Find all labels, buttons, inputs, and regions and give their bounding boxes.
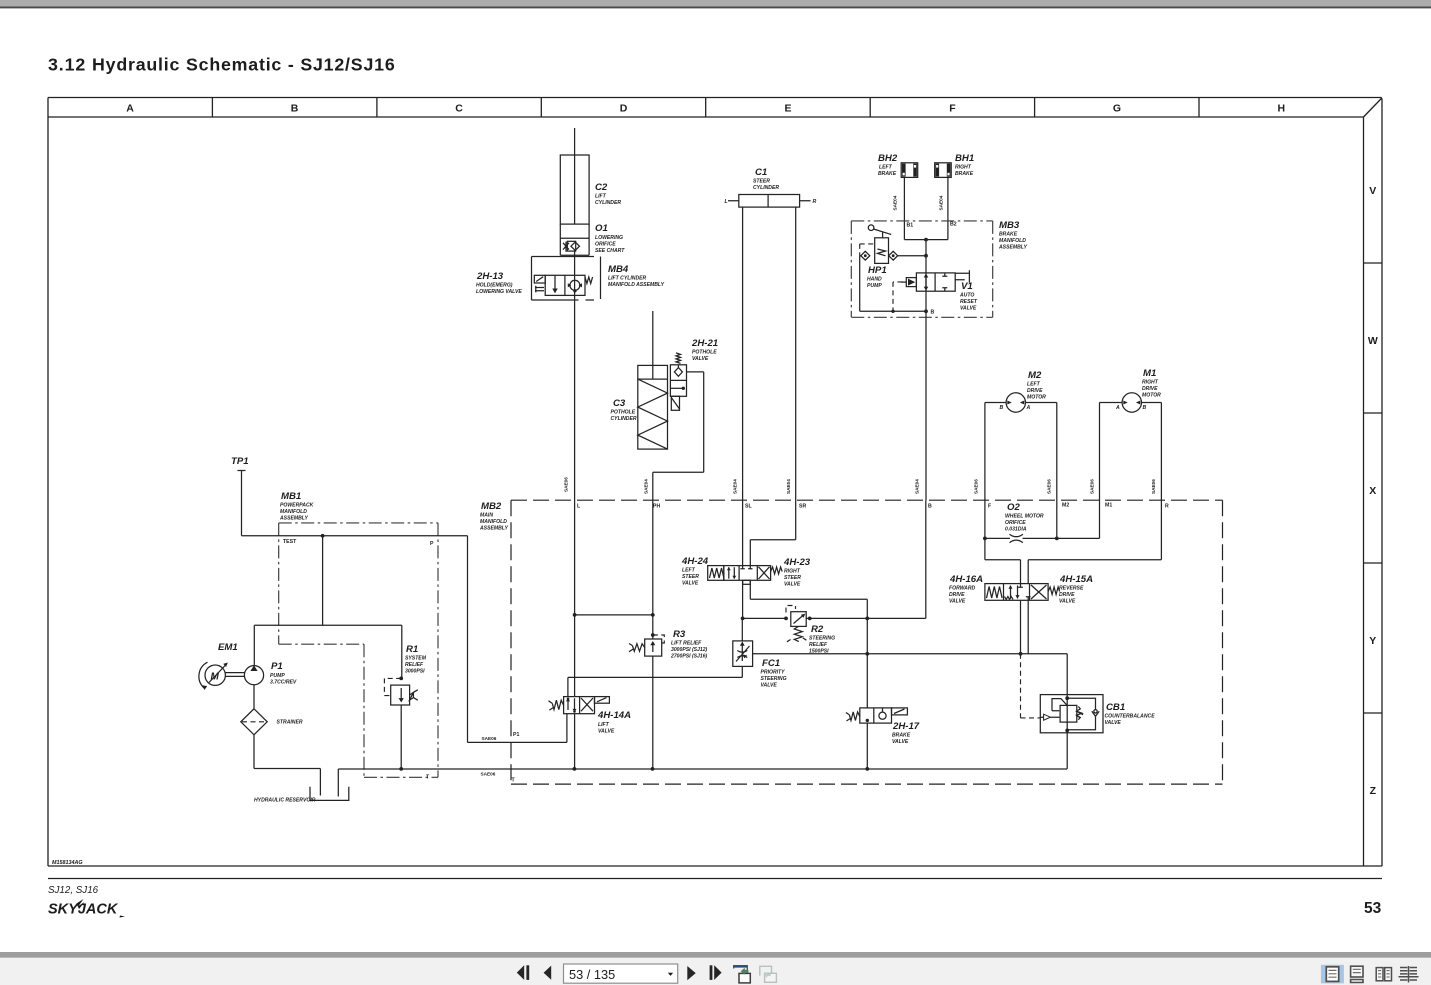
svg-text:STEERING: STEERING xyxy=(809,636,835,642)
wire brake feed B xyxy=(915,240,935,501)
svg-text:CYLINDER: CYLINDER xyxy=(611,416,637,422)
svg-text:BH2: BH2 xyxy=(878,153,898,164)
svg-text:FORWARD: FORWARD xyxy=(949,586,976,592)
svg-text:VALVE: VALVE xyxy=(1059,599,1076,605)
svg-text:CYLINDER: CYLINDER xyxy=(595,200,621,206)
left brake BH2 xyxy=(878,153,918,177)
svg-text:ASSEMBLY: ASSEMBLY xyxy=(479,526,509,532)
forward-history icon (disabled) xyxy=(760,966,777,982)
svg-text:SAE04: SAE04 xyxy=(644,479,649,494)
svg-text:V1: V1 xyxy=(961,281,973,292)
auto reset valve V1 xyxy=(893,270,978,311)
page number combo box xyxy=(564,964,678,983)
right drive motor M1 xyxy=(1100,368,1162,412)
svg-text:3000PSI (SJ12): 3000PSI (SJ12) xyxy=(671,647,708,653)
svg-text:VALVE: VALVE xyxy=(949,599,966,605)
svg-text:CYLINDER: CYLINDER xyxy=(753,185,779,191)
svg-text:STEER: STEER xyxy=(753,179,770,185)
electric motor EM1 xyxy=(199,642,238,690)
svg-text:MANIFOLD: MANIFOLD xyxy=(280,509,307,515)
wheel motor orifice O2 xyxy=(1005,502,1044,543)
nav last-page button xyxy=(710,965,722,980)
continuous facing layout icon xyxy=(1399,966,1419,983)
tank return T line xyxy=(338,767,1067,771)
svg-text:SAE06: SAE06 xyxy=(1151,479,1156,494)
nav next button xyxy=(687,966,695,980)
priority steering valve FC1 xyxy=(733,618,787,688)
svg-text:2H-21: 2H-21 xyxy=(691,338,718,349)
test point TP1 xyxy=(231,456,249,536)
svg-text:V: V xyxy=(1369,185,1376,197)
lift relief valve R3 xyxy=(629,629,708,660)
svg-text:POWERPACK: POWERPACK xyxy=(280,503,314,509)
wire steer valve right drain xyxy=(750,580,869,769)
svg-text:RIGHT: RIGHT xyxy=(1142,380,1159,386)
svg-text:MANIFOLD ASSEMBLY: MANIFOLD ASSEMBLY xyxy=(608,282,665,288)
svg-text:LIFT: LIFT xyxy=(598,722,610,728)
svg-text:LIFT CYLINDER: LIFT CYLINDER xyxy=(608,276,647,282)
svg-text:VALVE: VALVE xyxy=(960,306,977,312)
svg-text:LIFT RELIEF: LIFT RELIEF xyxy=(671,641,702,647)
svg-text:C1: C1 xyxy=(755,167,767,178)
svg-text:H: H xyxy=(1278,103,1286,115)
svg-text:VALVE: VALVE xyxy=(784,582,801,588)
steer valve 4H-24 / 4H-23 xyxy=(681,556,811,588)
svg-text:RELIEF: RELIEF xyxy=(405,662,424,668)
svg-text:MOTOR: MOTOR xyxy=(1142,393,1161,399)
wire SR line xyxy=(750,207,795,565)
svg-text:LEFT: LEFT xyxy=(682,568,696,574)
wire lift line xyxy=(564,250,575,769)
svg-text:3.12: 3.12 xyxy=(48,55,86,75)
svg-text:SAE04: SAE04 xyxy=(915,479,920,494)
pothole cylinder C3 xyxy=(611,311,668,449)
wire FC1 priority flow line xyxy=(753,652,1068,695)
zone column letters xyxy=(126,103,1285,115)
svg-text:RELIEF: RELIEF xyxy=(809,642,828,648)
lift cylinder C2 xyxy=(560,128,621,255)
svg-text:BRAKE: BRAKE xyxy=(999,232,1018,238)
svg-text:RIGHT: RIGHT xyxy=(784,569,801,575)
lowering orifice O1 xyxy=(560,223,625,255)
svg-text:STEER: STEER xyxy=(784,575,801,581)
svg-text:4H-15A: 4H-15A xyxy=(1059,574,1093,585)
wire brake lines xyxy=(893,177,957,241)
svg-text:P: P xyxy=(430,541,434,547)
svg-text:Hydraulic Schematic - SJ12/SJ1: Hydraulic Schematic - SJ12/SJ16 xyxy=(92,55,396,75)
wire motor loop lines xyxy=(974,403,1162,560)
svg-text:TEST: TEST xyxy=(283,539,297,545)
svg-text:TP1: TP1 xyxy=(231,456,249,467)
nav first-page button xyxy=(517,965,529,980)
svg-text:CB1: CB1 xyxy=(1106,702,1125,713)
svg-text:LIFT: LIFT xyxy=(595,194,607,200)
svg-text:SAE06: SAE06 xyxy=(974,479,979,494)
SKYJACK logo xyxy=(48,899,125,918)
svg-text:LOWERING VALVE: LOWERING VALVE xyxy=(476,289,522,295)
svg-text:DRIVE: DRIVE xyxy=(1059,592,1075,598)
svg-text:4H-23: 4H-23 xyxy=(783,557,811,568)
svg-text:B: B xyxy=(1000,405,1004,411)
bottom toolbar background xyxy=(0,952,1431,985)
svg-text:B: B xyxy=(1143,405,1147,411)
svg-text:FC1: FC1 xyxy=(762,658,780,669)
svg-text:PUMP: PUMP xyxy=(867,283,882,289)
wire PH line xyxy=(644,472,704,769)
left drive motor M2 xyxy=(985,370,1057,412)
wire steer valve to junction xyxy=(741,580,745,620)
holding/lowering valve 2H-13 xyxy=(476,271,593,295)
svg-text:L: L xyxy=(577,504,581,510)
svg-text:4H-14A: 4H-14A xyxy=(597,710,631,721)
svg-text:M158134AG: M158134AG xyxy=(52,860,83,866)
wire pump discharge xyxy=(254,536,401,679)
continuous layout icon xyxy=(1351,966,1363,982)
wire drive valve outlets xyxy=(1021,600,1029,654)
schematic border frame xyxy=(48,98,1382,879)
wire hand pump circuit xyxy=(860,256,926,313)
svg-text:A: A xyxy=(1115,405,1120,411)
svg-text:RIGHT: RIGHT xyxy=(955,165,972,171)
facing pages layout icon xyxy=(1376,968,1391,981)
svg-text:A: A xyxy=(126,103,134,115)
steering junction line xyxy=(743,500,926,620)
svg-text:LOWERING: LOWERING xyxy=(595,235,623,241)
svg-text:SAE04: SAE04 xyxy=(786,479,791,494)
hydraulic reservoir xyxy=(254,769,349,804)
svg-text:BH1: BH1 xyxy=(955,153,974,164)
svg-text:F: F xyxy=(988,504,991,510)
svg-text:MANIFOLD: MANIFOLD xyxy=(480,519,507,525)
footer model text xyxy=(48,885,99,896)
svg-text:LEFT: LEFT xyxy=(879,165,893,171)
svg-text:R2: R2 xyxy=(811,624,824,635)
steer cylinder C1 xyxy=(725,167,817,207)
svg-text:R3: R3 xyxy=(673,629,686,640)
svg-text:B: B xyxy=(928,504,932,510)
svg-text:HAND: HAND xyxy=(867,277,882,283)
svg-text:SAE06: SAE06 xyxy=(482,736,497,741)
svg-text:ORIFICE: ORIFICE xyxy=(595,242,616,248)
svg-text:SEE CHART: SEE CHART xyxy=(595,248,625,254)
svg-text:B: B xyxy=(291,103,299,115)
svg-text:DRIVE: DRIVE xyxy=(1027,388,1043,394)
svg-text:EM1: EM1 xyxy=(218,642,238,653)
svg-text:C3: C3 xyxy=(613,398,626,409)
svg-text:M1: M1 xyxy=(1105,503,1112,509)
hand pump HP1 xyxy=(860,225,898,289)
svg-text:MOTOR: MOTOR xyxy=(1027,395,1046,401)
right brake BH1 xyxy=(935,153,975,177)
svg-text:PH: PH xyxy=(653,504,660,510)
wire motor series line xyxy=(983,537,1100,541)
svg-text:ORIFICE: ORIFICE xyxy=(1005,520,1026,526)
svg-text:MB1: MB1 xyxy=(281,491,301,502)
relief valve R1 xyxy=(384,644,426,769)
svg-text:VALVE: VALVE xyxy=(892,739,909,745)
shaft coupling xyxy=(225,673,245,677)
svg-text:MB4: MB4 xyxy=(608,264,629,275)
svg-text:ASSEMBLY: ASSEMBLY xyxy=(279,516,309,522)
svg-text:WHEEL MOTOR: WHEEL MOTOR xyxy=(1005,514,1044,520)
svg-text:Y: Y xyxy=(1369,635,1376,647)
svg-text:STEER: STEER xyxy=(682,574,699,580)
svg-text:M2: M2 xyxy=(1028,370,1042,381)
svg-text:R1: R1 xyxy=(406,644,418,655)
svg-text:MB2: MB2 xyxy=(481,501,502,512)
svg-text:B2: B2 xyxy=(950,222,957,228)
svg-text:SAE04: SAE04 xyxy=(733,479,738,494)
svg-text:F: F xyxy=(949,103,956,115)
drive valve 4H-16A / 4H-15A xyxy=(949,574,1093,605)
steering relief R2 xyxy=(786,606,835,655)
svg-text:C2: C2 xyxy=(595,182,608,193)
svg-text:T: T xyxy=(426,775,430,781)
svg-text:LEFT: LEFT xyxy=(1027,382,1041,388)
svg-text:VALVE: VALVE xyxy=(682,581,699,587)
svg-text:ASSEMBLY: ASSEMBLY xyxy=(998,245,1028,251)
page number 53 xyxy=(1364,900,1382,917)
svg-text:L: L xyxy=(725,199,728,205)
svg-text:SR: SR xyxy=(799,504,806,510)
svg-text:PUMP: PUMP xyxy=(270,673,285,679)
svg-text:HOLD(EMERG): HOLD(EMERG) xyxy=(476,283,513,289)
svg-text:M2: M2 xyxy=(1062,503,1069,509)
svg-text:MANIFOLD: MANIFOLD xyxy=(999,238,1026,244)
svg-text:E: E xyxy=(784,103,791,115)
svg-text:R: R xyxy=(1165,504,1169,510)
svg-text:X: X xyxy=(1369,485,1376,497)
svg-text:53 / 135: 53 / 135 xyxy=(569,967,615,982)
drawing number M158134AG xyxy=(52,860,83,866)
wire FC1 bypass to lift valve xyxy=(568,666,742,696)
svg-text:SAE06: SAE06 xyxy=(564,477,569,492)
pothole valve 2H-21 xyxy=(670,338,718,472)
nav prev button xyxy=(544,966,552,980)
wire SL line xyxy=(733,207,743,565)
svg-text:W: W xyxy=(1368,335,1378,347)
svg-text:2H-13: 2H-13 xyxy=(476,271,504,282)
svg-text:DRIVE: DRIVE xyxy=(1142,386,1158,392)
svg-text:SJ12, SJ16: SJ12, SJ16 xyxy=(48,885,99,896)
svg-text:VALVE: VALVE xyxy=(1105,720,1122,726)
svg-text:SKYJACK: SKYJACK xyxy=(48,902,119,918)
main manifold MB2 dashed outline xyxy=(479,500,1223,784)
svg-text:O1: O1 xyxy=(595,223,608,234)
svg-text:HP1: HP1 xyxy=(868,265,887,276)
svg-text:53: 53 xyxy=(1364,900,1382,917)
svg-text:2700PSI (SJ16): 2700PSI (SJ16) xyxy=(670,654,708,660)
page title xyxy=(48,55,396,75)
svg-text:3.7CC/REV: 3.7CC/REV xyxy=(270,680,297,686)
svg-text:STRAINER: STRAINER xyxy=(277,720,303,726)
svg-text:COUNTERBALANCE: COUNTERBALANCE xyxy=(1105,714,1156,720)
pilot line drive valve to CB1 xyxy=(1021,654,1041,718)
wire CB1 tank port xyxy=(1066,733,1068,769)
svg-text:B: B xyxy=(931,310,935,316)
brake manifold MB3 dash-dot outline xyxy=(851,220,1027,317)
svg-text:SAE06: SAE06 xyxy=(481,772,496,777)
svg-text:C: C xyxy=(455,103,463,115)
svg-text:B1: B1 xyxy=(907,223,914,229)
svg-text:P1: P1 xyxy=(271,661,283,672)
svg-text:SYSTEM: SYSTEM xyxy=(405,656,427,662)
zone row letters xyxy=(1368,185,1378,797)
svg-text:RESET: RESET xyxy=(960,299,978,305)
svg-text:M1: M1 xyxy=(1143,368,1156,379)
svg-text:STEERING: STEERING xyxy=(761,676,787,682)
lift valve 4H-14A xyxy=(549,697,632,735)
svg-text:3000PSI: 3000PSI xyxy=(405,669,425,675)
svg-text:A: A xyxy=(1026,405,1031,411)
lift cylinder manifold MB4 xyxy=(532,257,665,301)
svg-text:4H-24: 4H-24 xyxy=(681,556,709,567)
brake valve 2H-17 xyxy=(846,708,920,745)
svg-text:REVERSE: REVERSE xyxy=(1059,586,1084,592)
svg-text:2H-17: 2H-17 xyxy=(892,721,920,732)
svg-text:Z: Z xyxy=(1370,785,1377,797)
strainer xyxy=(241,709,303,735)
wire drive valve feed lines xyxy=(985,560,1162,584)
svg-text:0.031DIA: 0.031DIA xyxy=(1005,527,1027,533)
svg-text:AUTO: AUTO xyxy=(959,293,974,299)
wire strainer to reservoir xyxy=(254,735,320,796)
svg-text:HYDRAULIC RESERVOIR: HYDRAULIC RESERVOIR xyxy=(254,798,316,804)
svg-text:R: R xyxy=(813,199,817,205)
svg-text:VALVE: VALVE xyxy=(598,729,615,735)
svg-text:4H-16A: 4H-16A xyxy=(949,574,983,585)
svg-text:VALVE: VALVE xyxy=(761,683,778,689)
counterbalance valve CB1 xyxy=(1040,695,1155,733)
single page layout icon (selected) xyxy=(1321,965,1344,984)
svg-text:SAE06: SAE06 xyxy=(1047,479,1052,494)
svg-text:G: G xyxy=(1113,103,1121,115)
svg-text:D: D xyxy=(620,103,628,115)
svg-text:BRAKE: BRAKE xyxy=(892,733,911,739)
svg-text:POTHOLE: POTHOLE xyxy=(611,410,636,416)
svg-text:VALVE: VALVE xyxy=(692,356,709,362)
svg-text:SAE04: SAE04 xyxy=(893,195,898,210)
back-history icon xyxy=(734,966,751,983)
manifold MB1 dash-dot outline xyxy=(279,491,438,781)
wire lift-to-PH link xyxy=(573,613,655,617)
svg-text:P1: P1 xyxy=(513,732,519,738)
wire pressure P line xyxy=(242,534,567,743)
svg-text:MAIN: MAIN xyxy=(480,513,493,519)
svg-text:SAE04: SAE04 xyxy=(939,195,944,210)
svg-text:T: T xyxy=(512,778,516,784)
svg-text:O2: O2 xyxy=(1007,502,1020,513)
svg-text:DRIVE: DRIVE xyxy=(949,592,965,598)
svg-text:MB3: MB3 xyxy=(999,220,1020,231)
svg-text:BRAKE: BRAKE xyxy=(955,171,974,177)
svg-text:PRIORITY: PRIORITY xyxy=(761,670,786,676)
top gray bar xyxy=(0,0,1431,8)
pump P1 xyxy=(244,661,297,709)
svg-text:BRAKE: BRAKE xyxy=(878,171,897,177)
svg-text:SAE06: SAE06 xyxy=(1090,479,1095,494)
svg-text:POTHOLE: POTHOLE xyxy=(692,350,717,356)
svg-text:SL: SL xyxy=(745,504,752,510)
